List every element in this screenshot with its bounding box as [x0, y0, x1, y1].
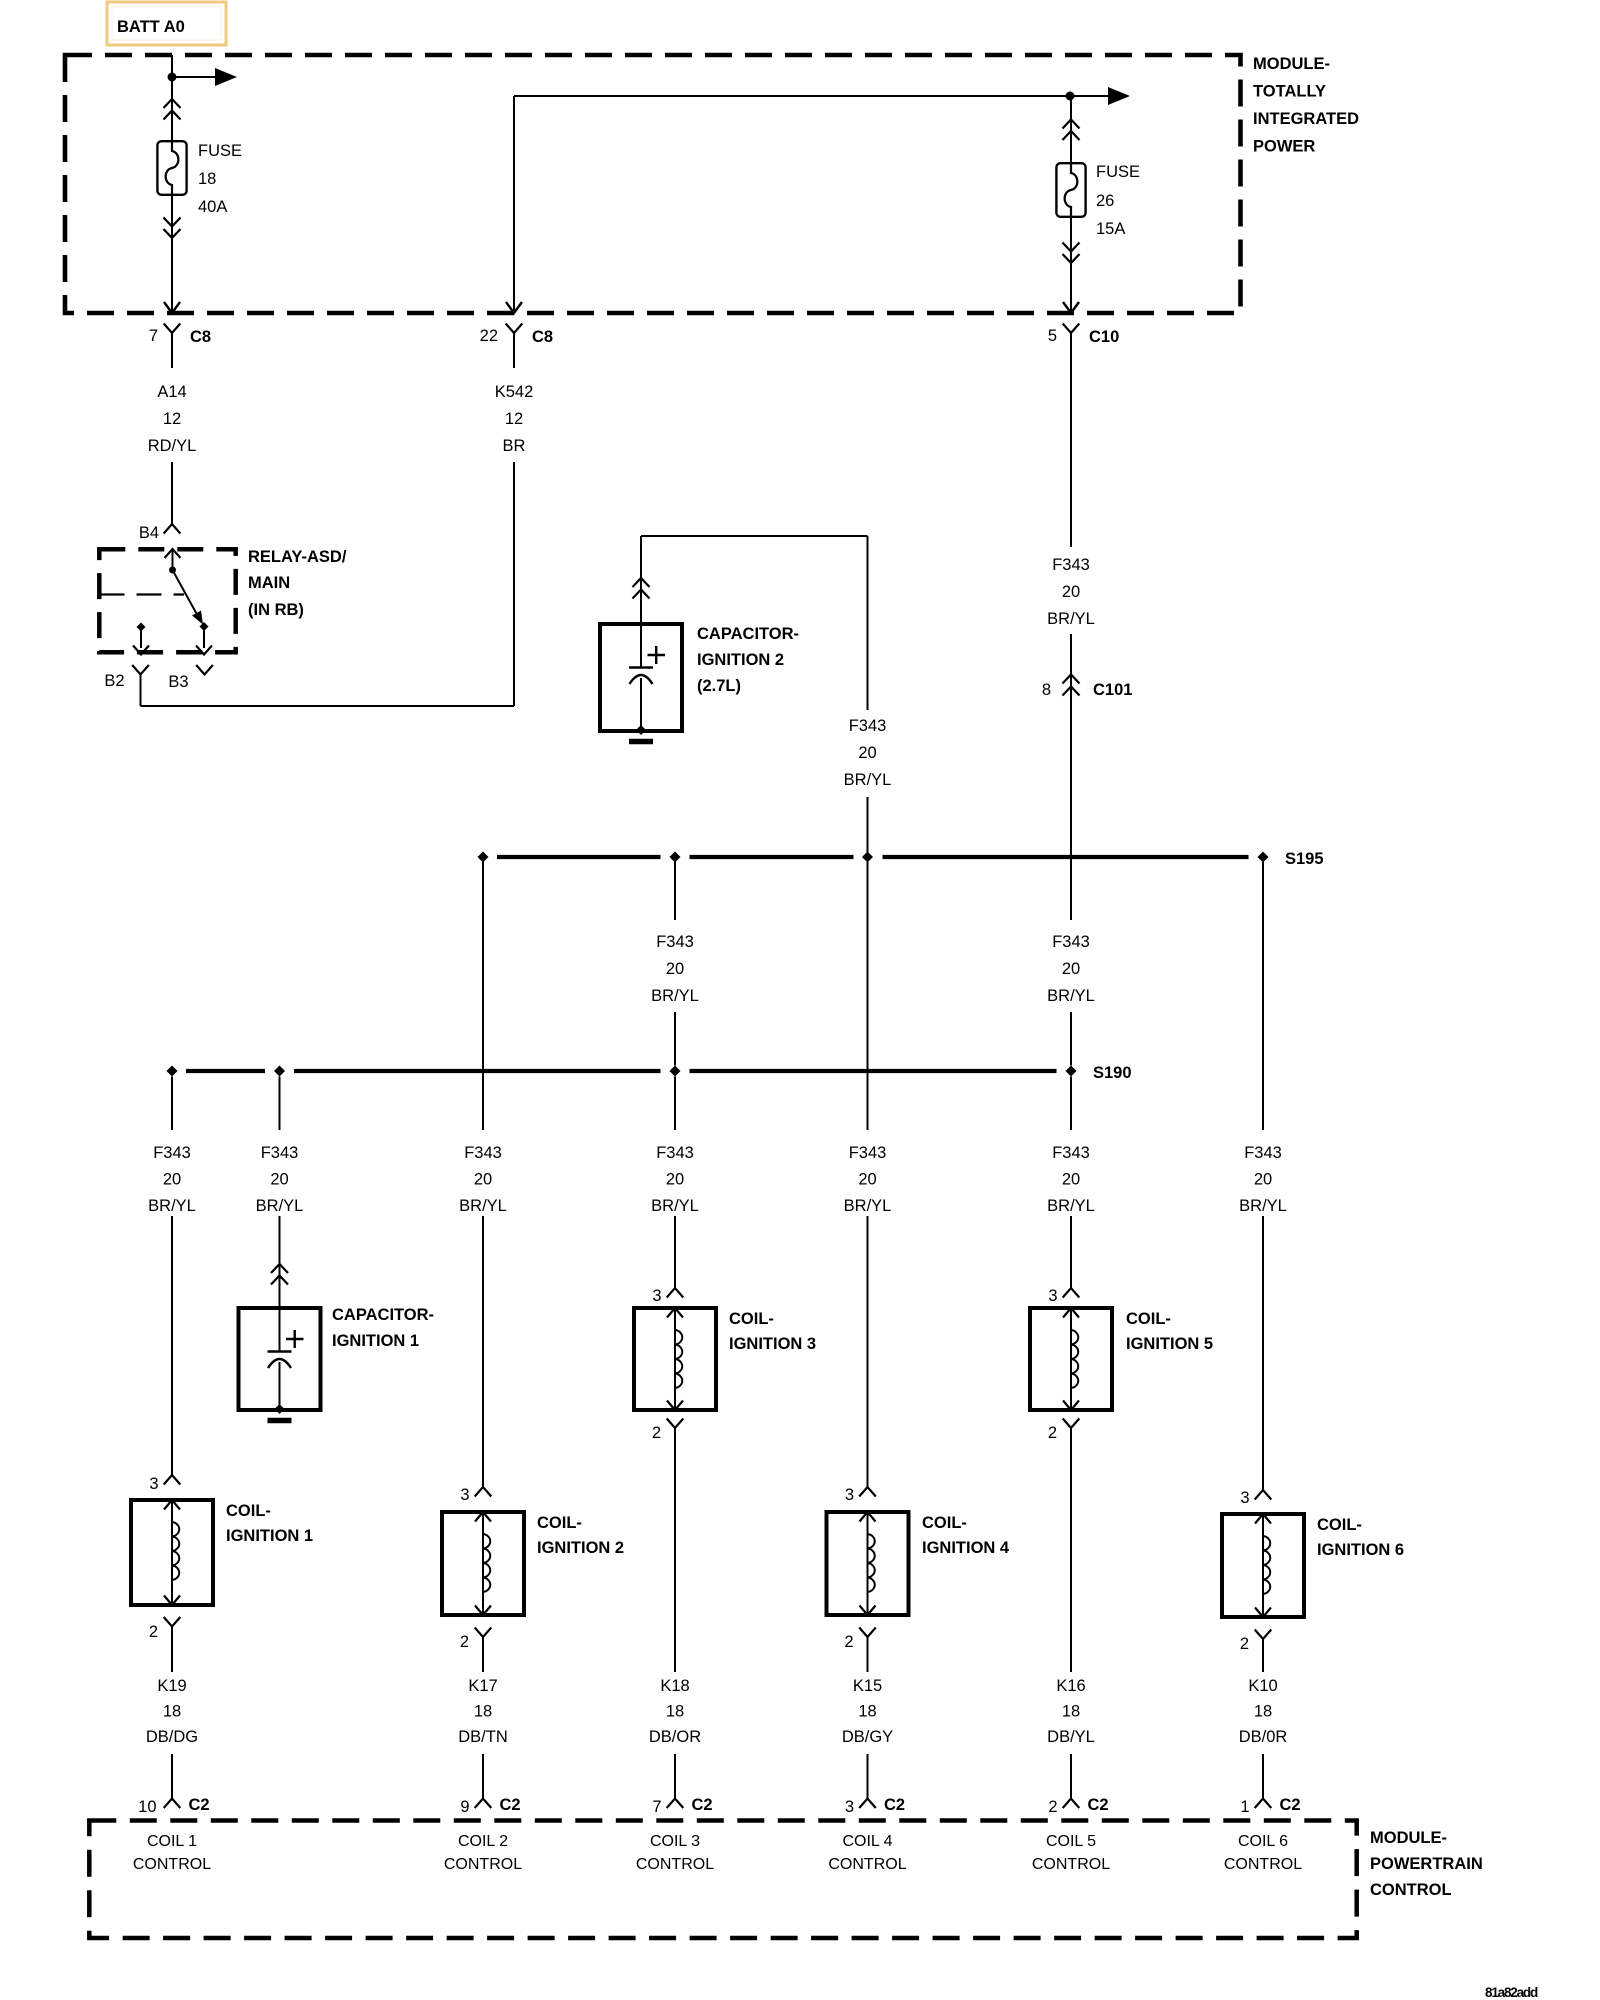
svg-text:C2: C2 [1088, 1796, 1109, 1814]
svg-text:IGNITION 6: IGNITION 6 [1317, 1541, 1404, 1559]
svg-text:RD/YL: RD/YL [148, 437, 197, 455]
svg-text:C2: C2 [189, 1796, 210, 1814]
svg-text:20: 20 [1062, 583, 1080, 601]
svg-text:18: 18 [198, 170, 216, 188]
svg-text:DB/OR: DB/OR [649, 1728, 701, 1746]
svg-text:18: 18 [163, 1703, 181, 1721]
svg-text:DB/GY: DB/GY [842, 1728, 893, 1746]
svg-text:12: 12 [163, 410, 181, 428]
svg-text:F343: F343 [656, 1144, 694, 1162]
svg-text:COIL-: COIL- [537, 1514, 582, 1532]
svg-text:3: 3 [845, 1486, 854, 1504]
svg-text:IGNITION 2: IGNITION 2 [537, 1539, 624, 1557]
svg-text:7: 7 [652, 1798, 661, 1816]
svg-text:20: 20 [1062, 960, 1080, 978]
svg-text:18: 18 [858, 1703, 876, 1721]
svg-text:F343: F343 [464, 1144, 502, 1162]
svg-text:20: 20 [1254, 1171, 1272, 1189]
svg-text:COIL 4: COIL 4 [842, 1833, 892, 1850]
svg-text:F343: F343 [153, 1144, 191, 1162]
svg-text:K10: K10 [1248, 1677, 1277, 1695]
svg-text:BR/YL: BR/YL [1047, 610, 1095, 628]
svg-text:C8: C8 [532, 328, 553, 346]
svg-text:(2.7L): (2.7L) [697, 677, 741, 695]
svg-text:F343: F343 [1052, 556, 1090, 574]
svg-text:3: 3 [652, 1287, 661, 1305]
svg-text:COIL-: COIL- [729, 1310, 774, 1328]
svg-text:20: 20 [666, 1171, 684, 1189]
svg-text:22: 22 [480, 327, 498, 345]
svg-text:2: 2 [149, 1623, 158, 1641]
svg-text:IGNITION 3: IGNITION 3 [729, 1335, 816, 1353]
svg-text:F343: F343 [656, 933, 694, 951]
svg-text:B2: B2 [104, 672, 124, 690]
svg-text:CONTROL: CONTROL [828, 1856, 906, 1873]
svg-text:IGNITION 1: IGNITION 1 [226, 1527, 313, 1545]
svg-text:20: 20 [858, 1171, 876, 1189]
svg-text:40A: 40A [198, 198, 227, 216]
svg-text:B3: B3 [168, 673, 188, 691]
svg-text:A14: A14 [157, 383, 186, 401]
svg-text:F343: F343 [849, 717, 887, 735]
svg-text:BR/YL: BR/YL [651, 1197, 699, 1215]
svg-text:CONTROL: CONTROL [636, 1856, 714, 1873]
svg-text:B4: B4 [139, 524, 159, 542]
svg-text:C8: C8 [190, 328, 211, 346]
svg-text:2: 2 [460, 1633, 469, 1651]
svg-text:K17: K17 [468, 1677, 497, 1695]
svg-text:18: 18 [1062, 1703, 1080, 1721]
svg-text:C101: C101 [1093, 681, 1132, 699]
svg-text:5: 5 [1048, 327, 1057, 345]
svg-text:C2: C2 [1280, 1796, 1301, 1814]
svg-text:BR/YL: BR/YL [459, 1197, 507, 1215]
svg-text:IGNITION 1: IGNITION 1 [332, 1332, 419, 1350]
svg-text:BR: BR [503, 437, 526, 455]
svg-text:DB/0R: DB/0R [1239, 1728, 1288, 1746]
svg-text:COIL-: COIL- [922, 1514, 967, 1532]
svg-text:3: 3 [149, 1475, 158, 1493]
svg-text:MAIN: MAIN [248, 574, 290, 592]
svg-text:TOTALLY: TOTALLY [1253, 83, 1326, 101]
svg-text:BR/YL: BR/YL [844, 1197, 892, 1215]
svg-text:20: 20 [858, 744, 876, 762]
svg-text:C2: C2 [692, 1796, 713, 1814]
svg-text:FUSE: FUSE [198, 142, 242, 160]
svg-text:CAPACITOR-: CAPACITOR- [332, 1306, 434, 1324]
svg-text:BR/YL: BR/YL [1047, 987, 1095, 1005]
svg-text:C2: C2 [500, 1796, 521, 1814]
svg-text:RELAY-ASD/: RELAY-ASD/ [248, 548, 347, 566]
svg-text:DB/TN: DB/TN [458, 1728, 508, 1746]
svg-text:K15: K15 [853, 1677, 882, 1695]
svg-text:CONTROL: CONTROL [1032, 1856, 1110, 1873]
svg-text:7: 7 [149, 327, 158, 345]
svg-text:COIL-: COIL- [1126, 1310, 1171, 1328]
svg-text:COIL 3: COIL 3 [650, 1833, 700, 1850]
svg-text:CONTROL: CONTROL [133, 1856, 211, 1873]
svg-text:(IN RB): (IN RB) [248, 601, 304, 619]
svg-text:2: 2 [1240, 1635, 1249, 1653]
svg-text:CAPACITOR-: CAPACITOR- [697, 625, 799, 643]
svg-text:F343: F343 [849, 1144, 887, 1162]
svg-text:IGNITION 5: IGNITION 5 [1126, 1335, 1213, 1353]
svg-text:18: 18 [1254, 1703, 1272, 1721]
svg-text:INTEGRATED: INTEGRATED [1253, 110, 1359, 128]
svg-text:POWERTRAIN: POWERTRAIN [1370, 1855, 1483, 1873]
svg-text:C10: C10 [1089, 328, 1119, 346]
svg-text:1: 1 [1240, 1798, 1249, 1816]
svg-text:BATT A0: BATT A0 [117, 18, 185, 36]
svg-text:DB/DG: DB/DG [146, 1728, 198, 1746]
svg-text:20: 20 [474, 1171, 492, 1189]
svg-text:20: 20 [270, 1171, 288, 1189]
svg-text:COIL 6: COIL 6 [1238, 1833, 1288, 1850]
svg-text:COIL-: COIL- [1317, 1516, 1362, 1534]
svg-text:3: 3 [845, 1798, 854, 1816]
svg-text:BR/YL: BR/YL [256, 1197, 304, 1215]
svg-text:2: 2 [1048, 1424, 1057, 1442]
svg-text:3: 3 [460, 1486, 469, 1504]
svg-text:BR/YL: BR/YL [1047, 1197, 1095, 1215]
svg-text:CONTROL: CONTROL [1370, 1881, 1452, 1899]
svg-text:20: 20 [163, 1171, 181, 1189]
svg-text:20: 20 [1062, 1171, 1080, 1189]
svg-text:K18: K18 [660, 1677, 689, 1695]
svg-text:2: 2 [1048, 1798, 1057, 1816]
svg-text:K16: K16 [1056, 1677, 1085, 1695]
svg-text:18: 18 [666, 1703, 684, 1721]
svg-text:BR/YL: BR/YL [844, 771, 892, 789]
svg-text:BR/YL: BR/YL [148, 1197, 196, 1215]
svg-text:MODULE-: MODULE- [1370, 1829, 1447, 1847]
svg-text:2: 2 [844, 1633, 853, 1651]
svg-text:CONTROL: CONTROL [444, 1856, 522, 1873]
svg-text:FUSE: FUSE [1096, 163, 1140, 181]
svg-text:K19: K19 [157, 1677, 186, 1695]
svg-text:F343: F343 [1052, 1144, 1090, 1162]
svg-text:POWER: POWER [1253, 138, 1315, 156]
svg-text:S190: S190 [1093, 1064, 1132, 1082]
svg-text:BR/YL: BR/YL [651, 987, 699, 1005]
svg-text:IGNITION 4: IGNITION 4 [922, 1539, 1010, 1557]
svg-text:DB/YL: DB/YL [1047, 1728, 1095, 1746]
svg-text:F343: F343 [1244, 1144, 1282, 1162]
svg-text:COIL 1: COIL 1 [147, 1833, 197, 1850]
svg-text:C2: C2 [884, 1796, 905, 1814]
svg-text:12: 12 [505, 410, 523, 428]
svg-text:S195: S195 [1285, 850, 1324, 868]
svg-text:IGNITION 2: IGNITION 2 [697, 651, 784, 669]
svg-text:81a82add: 81a82add [1485, 1985, 1538, 2000]
svg-text:F343: F343 [1052, 933, 1090, 951]
svg-text:BR/YL: BR/YL [1239, 1197, 1287, 1215]
svg-text:10: 10 [138, 1798, 156, 1816]
svg-text:2: 2 [652, 1424, 661, 1442]
svg-text:26: 26 [1096, 192, 1114, 210]
svg-text:3: 3 [1240, 1489, 1249, 1507]
svg-text:COIL-: COIL- [226, 1502, 271, 1520]
svg-text:COIL 2: COIL 2 [458, 1833, 508, 1850]
svg-text:20: 20 [666, 960, 684, 978]
svg-text:CONTROL: CONTROL [1224, 1856, 1302, 1873]
svg-text:F343: F343 [261, 1144, 299, 1162]
svg-text:K542: K542 [495, 383, 534, 401]
svg-text:COIL 5: COIL 5 [1046, 1833, 1096, 1850]
svg-text:18: 18 [474, 1703, 492, 1721]
svg-text:MODULE-: MODULE- [1253, 55, 1330, 73]
svg-text:15A: 15A [1096, 220, 1125, 238]
svg-text:9: 9 [460, 1798, 469, 1816]
svg-text:8: 8 [1042, 681, 1051, 699]
svg-text:3: 3 [1048, 1287, 1057, 1305]
